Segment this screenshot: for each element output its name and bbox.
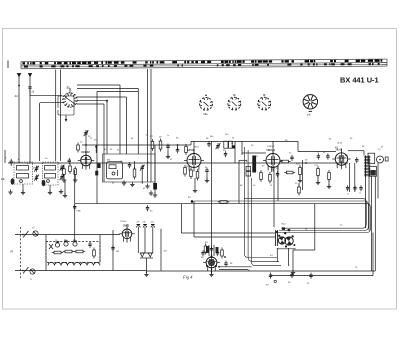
svg-text:24: 24 — [15, 94, 19, 98]
svg-text:Fig 4: Fig 4 — [182, 275, 193, 280]
svg-text:b8a: b8a — [204, 113, 209, 116]
svg-text:UL41: UL41 — [337, 143, 343, 145]
svg-text:UF41: UF41 — [188, 148, 195, 152]
svg-text:BX 441 U-1: BX 441 U-1 — [340, 76, 379, 85]
svg-text:+na: +na — [76, 210, 81, 213]
svg-text:UY41x: UY41x — [120, 221, 127, 223]
svg-text:UY41: UY41 — [123, 224, 130, 228]
svg-text:UF41: UF41 — [194, 147, 200, 149]
svg-text:UBC41: UBC41 — [267, 148, 276, 152]
svg-text:UBC41: UBC41 — [268, 146, 276, 148]
svg-text:m: m — [11, 250, 14, 254]
